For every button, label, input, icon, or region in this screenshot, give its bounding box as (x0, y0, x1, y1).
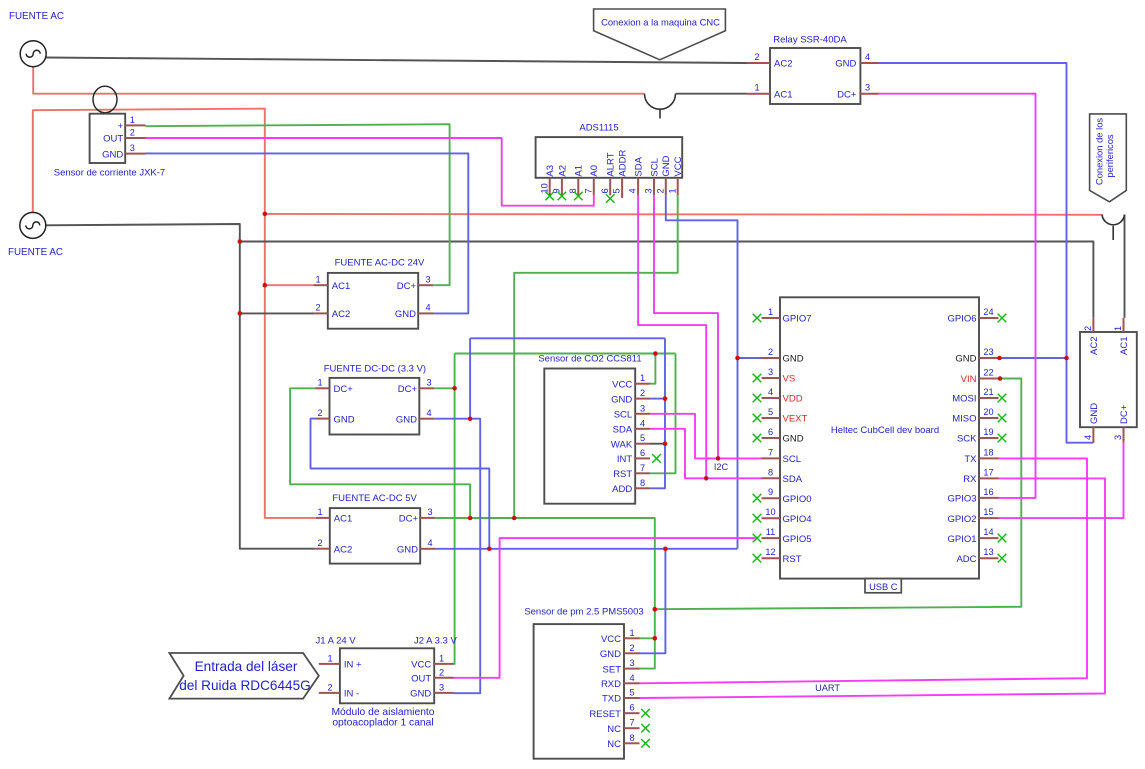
svg-text:DC+: DC+ (334, 384, 354, 395)
svg-text:18: 18 (983, 447, 993, 457)
wire Heltec GND pin23 to relay GND net (blue) (999, 357, 1067, 359)
svg-text:9: 9 (768, 487, 773, 497)
svg-text:10: 10 (539, 183, 549, 193)
svg-text:3: 3 (629, 658, 634, 668)
pin 4 SDA of ADS1115 (637, 178, 639, 196)
svg-text:GPIO5: GPIO5 (783, 534, 812, 545)
svg-text:10: 10 (765, 507, 775, 517)
pin 1 AC1 of relay SSR-40DA (747, 93, 771, 95)
svg-text:INT: INT (617, 454, 633, 465)
svg-text:RX: RX (963, 474, 977, 485)
pin 13 ADC of Heltec CubCell (979, 557, 999, 559)
wire AC source2 up to horizontal rail y=110 (red) (33, 109, 316, 518)
svg-text:2: 2 (439, 667, 444, 677)
svg-text:DC+: DC+ (837, 89, 857, 100)
svg-text:DC+: DC+ (399, 514, 419, 525)
svg-text:3: 3 (427, 507, 432, 517)
svg-text:MISO: MISO (952, 414, 976, 425)
svg-text:1: 1 (327, 653, 332, 663)
svg-text:A2: A2 (557, 165, 568, 177)
svg-text:11: 11 (766, 527, 776, 537)
svg-text:13: 13 (983, 547, 993, 557)
svg-text:2: 2 (754, 52, 759, 62)
svg-text:GND: GND (783, 354, 804, 365)
svg-text:AC2: AC2 (774, 59, 792, 70)
svg-text:2: 2 (317, 538, 322, 548)
no-connect X ADS1115 A3 (545, 192, 554, 201)
wire AC source1 to relay AC2 (dark) (46, 58, 747, 64)
svg-text:Conexion a la maquina CNC: Conexion a la maquina CNC (601, 16, 720, 27)
pin 7 NC of PMS5003 (624, 727, 640, 729)
svg-text:2: 2 (629, 643, 634, 653)
svg-text:7: 7 (629, 718, 634, 728)
pin 6 GND of Heltec CubCell (762, 437, 781, 439)
svg-text:AC1: AC1 (332, 281, 350, 292)
svg-text:DC+: DC+ (398, 384, 418, 395)
svg-text:AC2: AC2 (332, 309, 350, 320)
pin 1 + of JXK-7 (125, 124, 145, 126)
pin 2 GND of ADS1115 (665, 178, 667, 196)
wire red rail y=214.5 to peripherals connector (265, 213, 1102, 216)
pin 24 GPIO6 of Heltec CubCell (979, 317, 999, 319)
svg-text:GND: GND (611, 394, 632, 405)
pin 1 IN + of optocoupler module (319, 663, 340, 665)
pin 3 DC+ of peripherals connector (1123, 427, 1125, 443)
no-connect X Heltec pin 9 GPIO0 (753, 494, 762, 503)
svg-text:AC2: AC2 (1089, 337, 1100, 355)
no-connect X Heltec pin 24 GPIO6 (998, 314, 1007, 323)
wire isolated gnd right vertical to CCS811 ADD (blue) (650, 338, 665, 488)
pin 23 GND of Heltec CubCell (979, 357, 999, 359)
svg-text:FUENTE DC-DC (3.3 V): FUENTE DC-DC (3.3 V) (324, 364, 426, 375)
svg-text:GPIO7: GPIO7 (783, 314, 812, 325)
pin 2 AC2 of peripherals connector (1092, 318, 1094, 332)
svg-text:GND: GND (396, 414, 417, 425)
svg-text:4: 4 (426, 408, 431, 418)
power supply FUENTE DC-DC 3.3V (316, 364, 435, 435)
pin 2 OUT of optocoupler module (434, 677, 453, 679)
wire ADS1115 GND to main ground bus (blue) (666, 195, 738, 549)
pin 17 RX of Heltec CubCell (979, 477, 999, 479)
svg-text:VEXT: VEXT (783, 414, 808, 425)
wire CCS811 WAK to ground bus (dark) (650, 443, 665, 445)
junction 5V rail / DC-DC input feed (468, 516, 473, 521)
hierarchical flag Conexion a la maquina CNC (594, 9, 726, 60)
svg-text:20: 20 (983, 407, 993, 417)
svg-text:6: 6 (768, 427, 773, 437)
pin 1 VCC of optocoupler module (434, 663, 453, 665)
pin 4 GND of FUENTE DC-DC 3.3V (419, 418, 434, 420)
svg-text:1: 1 (754, 83, 759, 93)
wire 5V to DC-DC input DC+ pin1 (green) (290, 388, 470, 518)
banner Entrada del laser del Ruida RDC6445G (169, 653, 318, 699)
svg-text:perifericos: perifericos (1104, 134, 1115, 178)
svg-text:1: 1 (317, 507, 322, 517)
wire 5V rail from AC-DC 5V DC+ down to PMS5003 SET (green) (435, 518, 655, 669)
svg-text:2: 2 (327, 682, 332, 692)
svg-text:NC: NC (607, 739, 621, 750)
pin 4 GND of relay SSR-40DA (860, 62, 878, 64)
svg-text:TX: TX (964, 454, 977, 465)
svg-text:3: 3 (1113, 435, 1123, 440)
svg-text:MOSI: MOSI (952, 394, 976, 405)
pin 2 IN - of optocoupler module (319, 692, 340, 694)
MCU Heltec CubCell dev board (762, 297, 999, 578)
svg-text:GND: GND (334, 414, 355, 425)
wire Heltec TX to PMS5003 RXD (magenta UART) (640, 458, 1088, 683)
svg-text:4: 4 (640, 418, 645, 428)
svg-text:ADDR: ADDR (618, 150, 629, 177)
pin 22 VIN of Heltec CubCell (979, 378, 999, 380)
net label UART (815, 683, 840, 693)
pin 2 GND of Heltec CubCell (762, 357, 781, 359)
svg-text:GND: GND (410, 689, 431, 700)
svg-text:4: 4 (427, 538, 432, 548)
svg-text:5: 5 (612, 188, 622, 193)
pin 8 A1 of ADS1115 (577, 178, 579, 196)
svg-text:1: 1 (629, 628, 634, 638)
svg-text:Sensor de CO2 CCS811: Sensor de CO2 CCS811 (538, 354, 641, 365)
junction PMS VCC (653, 636, 658, 641)
wire AC source2 to dark bus (neutral) (44, 224, 316, 549)
wire 5V GND rail (blue) (435, 548, 738, 550)
svg-text:3: 3 (439, 682, 444, 692)
svg-text:8: 8 (768, 467, 773, 477)
junction SCL net (716, 456, 721, 461)
net label I2C (714, 462, 729, 472)
pin 8 SDA of Heltec CubCell (762, 477, 781, 479)
pin 1 VCC of PMS5003 (624, 637, 640, 639)
connector box perifericos AC2/AC1/GND/DC+ (1080, 318, 1137, 443)
pin 3 SET of PMS5003 (624, 668, 640, 670)
wire CNC connector to relay AC1 (dark) (676, 93, 747, 95)
junction DC-DC GND4 / isolated gnd (468, 416, 473, 421)
pin 5 ADDR of ADS1115 (621, 178, 623, 198)
connector symbol to CNC machine (arc + stub) (645, 94, 676, 119)
sensor CO2 CCS811 (538, 354, 650, 504)
IC ADS1115 (536, 123, 685, 199)
junction CCS GND on isolated gnd bus (663, 396, 668, 401)
svg-text:SCL: SCL (783, 454, 801, 465)
svg-text:7: 7 (583, 188, 593, 193)
no-connect X ADS1115 ALRT (606, 194, 615, 203)
pin 6 RESET of PMS5003 (624, 712, 640, 714)
svg-text:VIN: VIN (961, 374, 977, 385)
pin 7 SCL of Heltec CubCell (762, 457, 781, 459)
svg-text:DC+: DC+ (397, 281, 417, 292)
wire CCS811 SCL to Heltec SCL (magenta) (650, 414, 762, 459)
wire ADS1115 SCL to I2C SCL net (magenta) (654, 195, 718, 458)
pin 8 ADD of CCS811 (635, 487, 650, 489)
AC source FUENTE AC (top) (9, 11, 64, 67)
no-connect X CCS811 INT (652, 454, 661, 463)
pin 3 DC+ of FUENTE AC-DC 5V (420, 517, 435, 519)
pin 6 INT of CCS811 (635, 457, 650, 459)
svg-text:J1 A 24 V: J1 A 24 V (316, 636, 357, 647)
wire 5V to Heltec VIN (green) (655, 379, 1022, 610)
pin 19 SCK of Heltec CubCell (979, 437, 999, 439)
pin 2 AC2 of relay SSR-40DA (747, 62, 771, 64)
svg-text:VS: VS (783, 374, 796, 385)
svg-text:4: 4 (425, 303, 430, 313)
svg-text:USB C: USB C (869, 582, 898, 592)
wire JXK-7 pin+ to 24V DC+ (green) (146, 124, 450, 285)
wire 3.3V vertical to optocoupler VCC (green) (454, 354, 455, 664)
svg-text:7: 7 (768, 447, 773, 457)
junction gnd bus / Heltec GND2 (735, 356, 740, 361)
USB C connector box (865, 579, 901, 593)
svg-text:GND: GND (102, 149, 123, 160)
svg-text:SDA: SDA (634, 156, 645, 176)
pin 9 A2 of ADS1115 (561, 178, 563, 196)
svg-text:DC+: DC+ (1119, 404, 1130, 424)
svg-text:WAK: WAK (611, 439, 633, 450)
relay SSR-40DA (747, 35, 879, 105)
svg-text:SCL: SCL (649, 158, 660, 176)
pin 11 GPIO5 of Heltec CubCell (762, 537, 781, 539)
pin 7 A0 of ADS1115 (593, 178, 595, 196)
wire isolated gnd left vertical to DC-DC GND4 junction (blue) (454, 338, 481, 693)
svg-text:GPIO0: GPIO0 (783, 494, 812, 505)
svg-text:2: 2 (130, 128, 135, 138)
svg-text:ALRT: ALRT (606, 152, 617, 176)
svg-text:A3: A3 (545, 165, 556, 177)
no-connect X Heltec pin 12 RST (753, 554, 762, 563)
current sensor JXK-7 (54, 114, 165, 179)
wire Heltec GPIO2 to peripherals DC+ (magenta) (999, 443, 1124, 518)
wire CCS811 GND spur (blue) (650, 398, 665, 400)
svg-text:4: 4 (629, 673, 634, 683)
junction 5V vertical / VIN branch (653, 607, 658, 612)
no-connect X Heltec pin 4 VDD (753, 394, 762, 403)
svg-text:GPIO3: GPIO3 (947, 494, 976, 505)
pin 4 GND of FUENTE AC-DC 5V (420, 548, 435, 550)
pin 15 GPIO2 of Heltec CubCell (979, 517, 999, 519)
svg-text:GND: GND (395, 309, 416, 320)
wire DC-DC input GND pin2 to 5V GND (blue) (311, 419, 490, 549)
wire JXK-7 OUT to ADS1115 A0 (magenta) (146, 138, 594, 206)
svg-text:Sensor de pm 2.5 PMS5003: Sensor de pm 2.5 PMS5003 (524, 607, 643, 618)
svg-text:TXD: TXD (602, 694, 621, 705)
svg-text:1: 1 (1113, 326, 1123, 331)
wire ground bus to Heltec GND pin2 (blue) (738, 357, 762, 359)
svg-text:FUENTE AC: FUENTE AC (8, 247, 63, 258)
svg-text:3: 3 (644, 188, 654, 193)
power supply FUENTE AC-DC 24V (314, 258, 434, 329)
svg-text:5: 5 (640, 433, 645, 443)
svg-text:6: 6 (640, 448, 645, 458)
pin 2 GND of PMS5003 (624, 652, 640, 654)
svg-text:GND: GND (835, 59, 856, 70)
svg-text:FUENTE AC-DC 5V: FUENTE AC-DC 5V (332, 493, 417, 504)
wire 3.3V rail y=353.5 (green) (455, 353, 676, 355)
svg-text:1: 1 (317, 378, 322, 388)
svg-text:SDA: SDA (783, 474, 803, 485)
no-connect X Heltec pin 10 GPIO4 (753, 514, 762, 523)
svg-text:IN -: IN - (344, 689, 359, 700)
svg-text:IN +: IN + (344, 660, 362, 671)
junction Heltec GND23 pin (997, 356, 1002, 361)
svg-text:22: 22 (983, 368, 993, 378)
connector symbol to peripherals (arc + stub) (1102, 215, 1125, 241)
no-connect X Heltec pin 1 GPIO7 (753, 314, 762, 323)
pin 1 AC1 of FUENTE AC-DC 5V (316, 517, 330, 519)
pin 5 VEXT of Heltec CubCell (762, 417, 781, 419)
junction Heltec VIN pin (998, 376, 1003, 381)
svg-text:Sensor de corriente JXK-7: Sensor de corriente JXK-7 (54, 168, 165, 179)
svg-text:19: 19 (983, 427, 993, 437)
svg-text:del Ruida RDC6445G: del Ruida RDC6445G (179, 678, 310, 693)
svg-text:12: 12 (765, 547, 775, 557)
junction 5V GND rail / DC-DC input gnd (487, 547, 492, 552)
AC source FUENTE AC (second) (8, 212, 63, 258)
svg-text:4: 4 (865, 52, 870, 62)
no-connect X PMS5003 NC pin8 (641, 739, 650, 748)
svg-text:5: 5 (768, 407, 773, 417)
svg-text:VDD: VDD (783, 394, 803, 405)
svg-text:1: 1 (667, 188, 677, 193)
junction 24V AC1 feed (263, 283, 268, 288)
wire optocoupler OUT to Heltec GPIO5 (magenta) (454, 538, 756, 678)
svg-text:3: 3 (640, 403, 645, 413)
svg-text:GPIO1: GPIO1 (947, 534, 976, 545)
svg-text:AC1: AC1 (774, 89, 792, 100)
svg-text:VCC: VCC (411, 660, 431, 671)
pin 10 GPIO4 of Heltec CubCell (762, 517, 781, 519)
svg-text:I2C: I2C (714, 462, 729, 472)
sensor pm2.5 PMS5003 (524, 607, 643, 759)
pin 1 VCC of ADS1115 (677, 178, 679, 196)
svg-text:15: 15 (983, 507, 993, 517)
svg-text:AC2: AC2 (334, 544, 352, 555)
svg-text:3: 3 (768, 367, 773, 377)
wire DC-DC output GND pin4 to junction (blue) (434, 418, 470, 420)
pin 3 DC+ of FUENTE AC-DC 24V (418, 284, 433, 286)
svg-text:GPIO2: GPIO2 (947, 514, 976, 525)
pin 2 GND of FUENTE DC-DC 3.3V (316, 418, 330, 420)
svg-text:NC: NC (607, 724, 621, 735)
junction relay GND net / Heltec GND23 (1064, 356, 1069, 361)
pin 1 AC1 of FUENTE AC-DC 24V (314, 284, 328, 286)
svg-text:UART: UART (815, 683, 840, 693)
svg-text:+: + (118, 121, 124, 132)
svg-text:A1: A1 (574, 165, 585, 177)
pin 2 OUT of JXK-7 (125, 137, 145, 139)
junction 5V rail / ADS VCC branch (512, 516, 517, 521)
pin 9 GPIO0 of Heltec CubCell (762, 497, 781, 499)
wire red feed to FUENTE AC-DC 24V AC1 (265, 284, 314, 286)
svg-text:2: 2 (655, 188, 665, 193)
svg-text:J2 A 3.3 V: J2 A 3.3 V (414, 636, 457, 647)
pin 4 GND of peripherals connector (1092, 427, 1094, 443)
svg-text:optoacoplador 1 canal: optoacoplador 1 canal (332, 718, 433, 729)
svg-text:ADS1115: ADS1115 (579, 123, 618, 134)
junction DC-DC DC+ on 3.3V vertical (452, 386, 457, 391)
wire DC-DC output DC+ pin3 to 3.3V vertical (green) (434, 387, 454, 389)
pin 1 VCC of CCS811 (635, 383, 650, 385)
svg-text:SCL: SCL (614, 410, 632, 421)
svg-text:FUENTE AC: FUENTE AC (9, 11, 64, 22)
svg-text:ADD: ADD (612, 484, 632, 495)
svg-text:GND: GND (783, 434, 804, 445)
svg-text:AC1: AC1 (334, 514, 352, 525)
power supply FUENTE AC-DC 5V (316, 493, 435, 564)
hierarchical flag Conexion de los perifericos (1090, 114, 1127, 202)
junction CCS WAK on isolated gnd bus (663, 441, 668, 446)
pin 3 GND of JXK-7 (125, 153, 145, 155)
svg-text:RST: RST (783, 554, 802, 565)
svg-text:17: 17 (983, 467, 993, 477)
pin 1 GPIO7 of Heltec CubCell (762, 317, 781, 319)
pin 4 VDD of Heltec CubCell (762, 397, 781, 399)
no-connect X Heltec pin 5 VEXT (753, 414, 762, 423)
pin 2 AC2 of FUENTE AC-DC 24V (314, 312, 328, 314)
pin 12 RST of Heltec CubCell (762, 557, 781, 559)
svg-text:1: 1 (439, 653, 444, 663)
svg-text:23: 23 (983, 347, 993, 357)
svg-text:3: 3 (425, 274, 430, 284)
svg-text:3: 3 (865, 83, 870, 93)
svg-text:8: 8 (629, 733, 634, 743)
svg-text:Entrada del láser: Entrada del láser (195, 659, 298, 674)
wire 3.3V to CCS811 RST (green) (650, 354, 676, 474)
svg-text:RST: RST (613, 469, 632, 480)
svg-text:VCC: VCC (612, 379, 632, 390)
no-connect X Heltec pin 21 MOSI (998, 394, 1007, 403)
no-connect X Heltec pin 3 VS (753, 374, 762, 383)
svg-text:GND: GND (661, 155, 672, 176)
wire Heltec RX to PMS5003 TXD (magenta UART) (640, 478, 1106, 698)
optocoupler isolation module 1 channel (316, 636, 458, 729)
pin 3 SCL of CCS811 (635, 413, 650, 415)
junction 5V GND rail / PMS branch (663, 547, 668, 552)
svg-text:7: 7 (640, 463, 645, 473)
no-connect X ADS1115 A1 (574, 192, 583, 201)
svg-text:FUENTE AC-DC 24V: FUENTE AC-DC 24V (335, 258, 425, 269)
pin 14 GPIO1 of Heltec CubCell (979, 537, 999, 539)
junction 24V AC2 feed (238, 311, 243, 316)
svg-text:2: 2 (315, 303, 320, 313)
pin 10 A3 of ADS1115 (549, 178, 551, 196)
pin 16 GPIO3 of Heltec CubCell (979, 497, 999, 499)
wire ADS1115 VCC to 5V rail (green) (514, 195, 678, 518)
wire JXK-7 GND to 24V GND (blue) (146, 153, 469, 313)
svg-text:1: 1 (130, 115, 135, 125)
wire relay DC+ to Heltec GPIO3 (magenta) (879, 94, 1036, 498)
wire GND rail down to PMS5003 GND (blue) (640, 549, 666, 654)
svg-text:8: 8 (568, 188, 578, 193)
svg-text:1: 1 (640, 373, 645, 383)
svg-text:1: 1 (315, 274, 320, 284)
no-connect X Heltec pin 6 GND (753, 434, 762, 443)
svg-text:21: 21 (983, 387, 993, 397)
svg-text:24: 24 (983, 307, 993, 317)
wire dark rail y=241.5 to peripherals box AC2 (240, 242, 1094, 318)
no-connect X Heltec pin 11 GPIO5 (753, 534, 762, 543)
pin 1 AC1 of peripherals connector (1123, 318, 1125, 332)
svg-text:AC1: AC1 (1119, 337, 1130, 355)
svg-text:2: 2 (1083, 326, 1093, 331)
svg-text:SDA: SDA (613, 425, 633, 436)
pin 8 NC of PMS5003 (624, 742, 640, 744)
pin 6 ALRT of ADS1115 (609, 178, 611, 196)
svg-text:Módulo de aislamiento: Módulo de aislamiento (331, 707, 434, 718)
svg-text:GND: GND (1089, 403, 1100, 424)
pin 3 GND of optocoupler module (434, 692, 453, 694)
svg-text:16: 16 (983, 487, 993, 497)
svg-text:3: 3 (426, 378, 431, 388)
svg-text:4: 4 (628, 188, 638, 193)
